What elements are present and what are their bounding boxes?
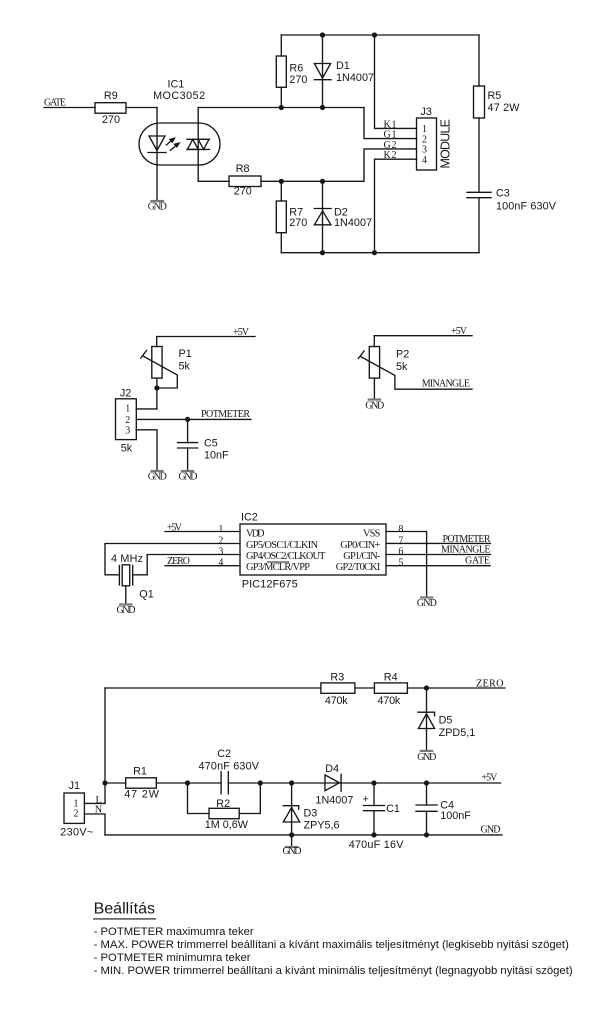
svg-text:470uF 16V: 470uF 16V [349,839,404,851]
wire to ZERO label [407,687,505,689]
svg-text:1M 0,6W: 1M 0,6W [205,819,249,831]
svg-text:- MAX. POWER trimmerrel beállí: - MAX. POWER trimmerrel beállítani a kív… [94,939,569,951]
light arrows [166,141,171,145]
junction (291.6,834.9) [289,832,294,837]
ground GND (D3) [286,846,297,848]
ground GND (VSS) [421,596,432,598]
svg-text:GND: GND [283,846,302,857]
svg-text:270: 270 [102,114,120,126]
svg-text:P1: P1 [179,348,192,360]
junction (187.6,419.4) [185,417,190,422]
svg-text:GATE: GATE [465,556,490,567]
svg-text:GND: GND [179,472,198,483]
svg-text:J2: J2 [120,387,131,399]
svg-text:470k: 470k [378,695,401,707]
diode D2 [322,181,324,252]
diode D4 [325,775,339,791]
svg-text:230V~: 230V~ [60,827,93,839]
crystal Q1 [118,566,120,586]
svg-text:R1: R1 [133,765,147,777]
resistor R2 [188,783,210,814]
junction (374,783) [371,780,376,785]
svg-text:MINANGLE: MINANGLE [422,378,470,389]
svg-text:100nF 630V: 100nF 630V [496,201,557,213]
svg-text:Beállítás: Beállítás [94,901,155,918]
wire +5V rail [105,782,126,784]
svg-text:GND: GND [148,202,167,213]
svg-text:VSS: VSS [363,529,381,540]
svg-text:+: + [363,794,369,806]
svg-text:47 2W: 47 2W [124,788,159,800]
svg-text:5: 5 [398,558,403,569]
svg-text:GP5/OSC1/CLKIN: GP5/OSC1/CLKIN [246,540,319,551]
svg-text:GP0/CIN+: GP0/CIN+ [340,540,380,551]
svg-text:POTMETER: POTMETER [443,534,491,545]
junction (281.3,181.3) [279,179,284,184]
junction (322.5,181.3) [320,179,325,184]
junction (187.5,783) [185,780,190,785]
resistor R1 [126,778,157,788]
trimmer P2 [373,336,375,347]
ground GND (Q1) [125,586,127,604]
svg-text:GND: GND [365,401,384,412]
wire J1 pin1 [84,802,105,804]
svg-text:MOC3052: MOC3052 [153,90,205,102]
svg-text:R9: R9 [104,90,118,102]
wire R8 to G2 [261,149,417,181]
trimmer P1 [156,337,158,347]
svg-text:1: 1 [125,404,130,415]
junction (322.5,252.7) [320,250,325,255]
svg-text:D1: D1 [336,60,350,72]
junction (426.5,834.9) [424,832,429,837]
svg-text:8: 8 [398,524,403,535]
wire GND rail [105,834,502,836]
svg-text:C3: C3 [496,188,510,200]
resistor R9 [95,103,126,114]
svg-text:C1: C1 [386,803,400,815]
svg-text:5k: 5k [179,361,191,373]
svg-text:5k: 5k [121,443,133,455]
svg-text:P2: P2 [396,348,409,360]
wire GATE to R9 [44,107,95,109]
svg-text:IC2: IC2 [241,512,258,524]
wire POTMETER (pin7) [386,542,491,544]
resistor R3 [321,683,355,693]
svg-text:270: 270 [289,74,307,86]
svg-text:10nF: 10nF [204,449,229,461]
resistor R7 [280,181,282,201]
wire pin2 to crystal [105,544,240,575]
svg-text:D5: D5 [439,715,453,727]
capacitor C4 [426,783,428,805]
wire +5V rail 2 [374,335,472,337]
svg-text:GND: GND [481,825,501,836]
svg-text:Q1: Q1 [139,588,153,600]
wire top rail y107 [198,107,364,109]
svg-text:R4: R4 [384,671,398,683]
junction (374.5,35) [372,32,377,37]
svg-text:GP1/CIN-: GP1/CIN- [343,551,381,562]
wire D4 to +5V [341,782,500,784]
svg-text:GND: GND [117,605,136,616]
svg-text:+5V: +5V [481,772,498,783]
resistor R8 [229,176,261,187]
svg-text:IC1: IC1 [168,79,185,91]
svg-text:7: 7 [398,535,403,546]
svg-text:100nF: 100nF [440,810,471,822]
svg-text:PIC12F675: PIC12F675 [242,578,298,590]
capacitor C5 [187,419,189,442]
wire J2 pin1 [136,408,157,410]
resistor R6 [280,35,282,56]
svg-text:J1: J1 [69,780,80,792]
junction (426.5,688) [424,685,429,690]
svg-text:POTMETER: POTMETER [201,409,250,420]
svg-text:C5: C5 [204,438,218,450]
svg-text:270: 270 [234,186,252,198]
zener diode D5 [426,688,428,751]
svg-text:VDD: VDD [246,529,265,540]
svg-text:47 2W: 47 2W [488,102,521,114]
wire R9 to opto [126,107,157,109]
svg-text:GP4/OSC2/CLKOUT: GP4/OSC2/CLKOUT [246,551,326,562]
svg-text:4 MHz: 4 MHz [111,553,143,565]
svg-text:R6: R6 [289,62,303,74]
svg-text:470k: 470k [325,695,348,707]
junction (260.3,783) [258,780,263,785]
diode D1 [322,35,324,108]
wire ZERO rail [105,687,321,689]
svg-text:GND: GND [148,472,167,483]
wire G1 [364,108,417,139]
svg-text:GP2/T0CKI: GP2/T0CKI [336,562,381,573]
svg-text:4: 4 [218,558,223,569]
svg-text:- POTMETER minimumra teker: - POTMETER minimumra teker [94,952,251,964]
resistor R4 [374,683,407,693]
wire left vertical (L to ZERO rail) [104,688,106,803]
svg-text:1N4007: 1N4007 [336,72,374,84]
wire J1 pin2 to GND rail [84,814,105,835]
svg-text:1N4007: 1N4007 [334,217,372,229]
ground GND (under IC1 LED) [152,200,164,202]
wire MINANGLE (pin6) [386,554,491,556]
svg-text:3: 3 [218,546,223,557]
junction (374,834.9) [371,832,376,837]
svg-text:K2: K2 [384,150,397,161]
svg-text:6: 6 [398,546,403,557]
svg-text:2: 2 [218,535,223,546]
svg-text:MINANGLE: MINANGLE [441,545,491,556]
svg-text:GND: GND [417,598,437,609]
svg-text:1N4007: 1N4007 [315,794,353,806]
svg-text:D4: D4 [325,763,339,775]
svg-text:R8: R8 [236,163,250,175]
wire J2 pin3 to GND [136,430,157,471]
svg-text:2: 2 [125,415,130,426]
svg-text:R5: R5 [488,90,502,102]
capacitor C1 [373,783,375,806]
ground GND (C5) [182,470,193,472]
svg-text:1: 1 [218,524,223,535]
svg-text:270: 270 [289,217,307,229]
junction (374.5,252.7) [372,250,377,255]
ground GND (J2 pin3) [152,470,163,472]
svg-text:C2: C2 [217,748,231,760]
junction (156.9,388) [154,385,159,390]
svg-text:2: 2 [74,809,79,820]
junction (322.5,35) [320,32,325,37]
svg-text:470nF 630V: 470nF 630V [199,761,260,773]
wire pin1 [165,531,240,533]
wire VSS to GND [386,532,427,598]
junction (105,783) [102,780,107,785]
junction (426.5,783) [424,780,429,785]
ground GND (P2) [369,398,380,400]
wire K2 [375,159,417,253]
capacitor C3 [467,191,491,193]
svg-text:ZERO: ZERO [476,678,504,689]
wire R1 to C2 [156,782,221,784]
zener diode D3 [291,783,293,847]
junction (322.5,107.5) [320,105,325,110]
svg-text:D3: D3 [304,808,318,820]
svg-text:R3: R3 [330,671,344,683]
svg-text:ZPD5,1: ZPD5,1 [439,727,476,739]
svg-text:ZPY5,6: ZPY5,6 [304,819,340,831]
wire R3-R4 [355,687,374,689]
wire +5V rail [157,336,255,338]
wire POTMETER [136,418,251,420]
junction (291.6,783) [289,780,294,785]
svg-text:GND: GND [417,752,436,763]
svg-text:J3: J3 [421,106,432,118]
svg-text:GP3/MCLR/VPP: GP3/MCLR/VPP [246,562,310,573]
svg-text:MODULE: MODULE [439,119,453,169]
resistor R5 [478,35,480,86]
svg-text:- POTMETER maximumra teker: - POTMETER maximumra teker [94,926,254,938]
wire top rail y35 [281,34,479,36]
svg-text:3: 3 [125,425,130,436]
ground GND (D5) [421,750,432,752]
capacitor C2 [220,772,222,794]
junction (281.3,107.5) [279,105,284,110]
wire pin4 [165,565,240,567]
svg-text:- MIN. POWER trimmerrel beállí: - MIN. POWER trimmerrel beállítani a kív… [94,965,573,977]
wire GATE (pin5) [386,565,490,567]
wire bottom rail y252 [281,252,479,254]
svg-text:R2: R2 [216,798,230,810]
wire C2 to D4 [228,782,341,784]
wire K1 [375,35,417,128]
triac inside IC1 [197,108,199,182]
wire rail y181 [198,180,229,182]
LED inside IC1 [156,108,158,202]
svg-text:4: 4 [422,155,427,166]
svg-text:5k: 5k [396,361,408,373]
